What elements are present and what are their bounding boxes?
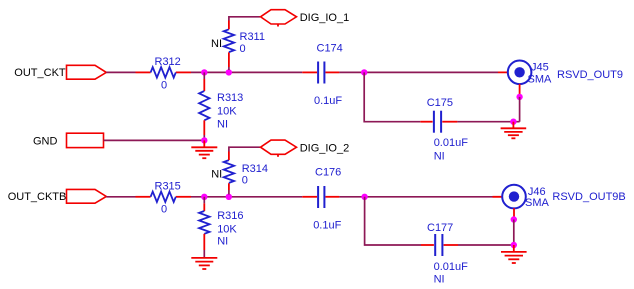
wire R314 to DIG_IO_2 [229, 147, 260, 151]
svg-text:C174: C174 [317, 42, 343, 54]
wire C174 to J45 [339, 71, 498, 73]
node junction D [361, 194, 367, 200]
wire R313 to GND junction [203, 135, 205, 140]
svg-text:J45: J45 [531, 62, 549, 74]
wire C177 to J46 ground leg [458, 244, 514, 246]
connector J45 pin [498, 71, 520, 73]
port DIG_IO_1 symbol [261, 10, 297, 24]
ground below R313 [191, 140, 217, 158]
wire R311 to DIG_IO_1 [229, 17, 260, 21]
wire R315 to C176 [191, 196, 302, 198]
svg-text:J46: J46 [528, 186, 546, 198]
wire C176 to J46 [339, 196, 492, 198]
connector J46 SMA body [502, 185, 526, 209]
wire junction D down and right to C177 [365, 197, 421, 245]
svg-text:10K: 10K [217, 223, 237, 235]
ground below J46 [501, 245, 527, 263]
svg-text:R313: R313 [217, 92, 243, 104]
port DIG_IO_2 symbol [261, 140, 297, 154]
svg-text:OUT_CKT: OUT_CKT [14, 67, 66, 79]
wire R316 to ground [203, 250, 205, 258]
svg-text:NI: NI [217, 119, 228, 131]
node junction B [226, 69, 232, 75]
svg-text:GND: GND [33, 135, 58, 147]
connector J45 ground pin [519, 84, 521, 95]
connector J45 SMA body [508, 61, 532, 85]
resistor R311 bottom pin [228, 67, 230, 70]
capacitor C177 plates [434, 234, 436, 256]
resistor R316 top pin [203, 197, 205, 204]
ground below R316 [191, 258, 217, 269]
wire GND to R313 foot [104, 139, 205, 141]
wire J46 down to C177 line [513, 220, 515, 246]
resistor R315 pins [136, 196, 151, 198]
resistor R312 pins [136, 71, 151, 73]
resistor R314 bottom pin [228, 190, 230, 195]
port GND symbol [67, 133, 104, 147]
svg-text:RSVD_OUT9B: RSVD_OUT9B [552, 191, 625, 203]
node junction C [361, 69, 367, 75]
node junction below J45 [516, 94, 522, 100]
resistor R316 body [199, 211, 209, 234]
capacitor C174 plates [317, 62, 319, 84]
svg-text:SMA: SMA [525, 197, 550, 209]
svg-text:0.01uF: 0.01uF [434, 261, 469, 273]
svg-text:0: 0 [161, 204, 167, 216]
node ground junction bottom [511, 242, 517, 248]
capacitor C174 pins [302, 71, 317, 73]
wire J45 down to C175 line [519, 97, 521, 122]
capacitor C176 pins [302, 196, 317, 198]
node junction F [226, 194, 232, 200]
svg-text:0: 0 [242, 174, 248, 186]
capacitor C175 pins [420, 121, 432, 123]
resistor R314 top pin [228, 152, 230, 161]
svg-text:C176: C176 [315, 167, 341, 179]
svg-text:C175: C175 [427, 97, 453, 109]
resistor R315 body [151, 192, 176, 202]
svg-text:DIG_IO_1: DIG_IO_1 [300, 12, 350, 24]
svg-text:C177: C177 [427, 222, 453, 234]
resistor R313 body [199, 91, 209, 120]
resistor R313 top pin [203, 72, 205, 79]
port OUT_CKTB symbol [67, 189, 107, 203]
node junction E [201, 194, 207, 200]
svg-text:NI: NI [434, 273, 445, 285]
capacitor C175 plates [433, 111, 435, 133]
svg-text:NI: NI [211, 168, 222, 180]
resistor R311 top pin [228, 21, 230, 30]
node ground junction top [510, 119, 516, 125]
connector J46 pin [493, 196, 515, 198]
node junction below J46 [511, 216, 517, 222]
svg-text:RSVD_OUT9: RSVD_OUT9 [557, 69, 623, 81]
svg-text:R312: R312 [155, 56, 181, 68]
connector J46 ground pin [513, 208, 515, 217]
wire R312 to C174 [191, 71, 302, 73]
svg-text:0.1uF: 0.1uF [314, 95, 342, 107]
svg-text:DIG_IO_2: DIG_IO_2 [300, 142, 350, 154]
port OUT_CKT symbol [67, 65, 107, 79]
resistor R313 bottom pin [203, 120, 205, 135]
svg-text:SMA: SMA [528, 74, 553, 86]
wire junction C down and right to C175 [364, 72, 420, 121]
svg-text:NI: NI [211, 38, 222, 50]
node GND junction [201, 137, 207, 143]
capacitor C176 plates [317, 186, 319, 208]
svg-text:R314: R314 [242, 163, 268, 175]
svg-text:0: 0 [240, 43, 246, 55]
resistor R314 body [224, 160, 234, 183]
node junction A [201, 69, 207, 75]
wire C175 to J45 ground leg [457, 121, 519, 123]
resistor R316 bottom pin [203, 234, 205, 250]
ground below J45 [501, 122, 527, 139]
svg-text:R311: R311 [240, 31, 265, 43]
svg-text:0.01uF: 0.01uF [434, 137, 469, 149]
svg-text:0.1uF: 0.1uF [313, 219, 341, 231]
svg-text:10K: 10K [217, 106, 237, 118]
svg-text:R316: R316 [217, 210, 243, 222]
svg-text:0: 0 [161, 80, 167, 92]
capacitor C177 pins [421, 244, 434, 246]
resistor R312 body [151, 67, 176, 77]
svg-text:OUT_CKTB: OUT_CKTB [8, 191, 67, 203]
svg-text:NI: NI [217, 235, 228, 247]
resistor R311 body [224, 29, 234, 52]
svg-text:NI: NI [434, 150, 445, 162]
svg-text:R315: R315 [155, 180, 181, 192]
wire OUT_CKT to R312 [106, 71, 135, 73]
wire OUT_CKTB to R315 [106, 196, 135, 198]
